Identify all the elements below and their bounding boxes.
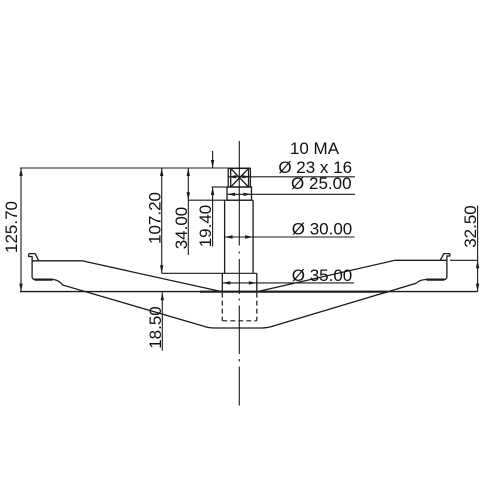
svg-text:19.40: 19.40 xyxy=(196,205,215,248)
label Ø 25.00 arrow left xyxy=(227,193,235,196)
svg-text:34.00: 34.00 xyxy=(172,207,191,250)
svg-text:10 MA: 10 MA xyxy=(290,139,340,158)
dim 34.00 arrow up xyxy=(187,168,190,176)
flange Ø35 right edge xyxy=(256,273,258,292)
label Ø 30.00 leader line xyxy=(225,236,355,238)
left hook body and foot xyxy=(32,261,214,328)
label Ø 23 x 16 arrow right xyxy=(242,175,250,178)
flange Ø35 left edge xyxy=(221,273,223,292)
label Ø 23 x 16 leader line xyxy=(228,176,355,178)
label Ø 35.00 arrow right xyxy=(249,281,257,284)
label Ø 25.00 arrow right xyxy=(244,193,252,196)
svg-text:18.50: 18.50 xyxy=(146,306,165,349)
right foot bottom thick edge xyxy=(427,279,445,281)
threaded section inner left line xyxy=(230,168,232,187)
right arm top face slant from flange xyxy=(257,260,395,292)
dim 125.70 arrow down xyxy=(19,284,22,292)
threaded section inner right line xyxy=(248,168,250,187)
hidden outline dashed right xyxy=(256,293,258,321)
dim 32.50 line xyxy=(477,206,479,292)
top reference line y=168 xyxy=(20,167,250,169)
flange top line with extension left to 107.20 dim xyxy=(162,272,257,274)
right hook tab xyxy=(440,254,450,261)
svg-text:Ø 25.00: Ø 25.00 xyxy=(291,174,352,193)
dim 125.70 arrow up xyxy=(19,168,22,176)
svg-text:125.70: 125.70 xyxy=(2,201,21,253)
threaded section diagonal 1 xyxy=(231,168,249,187)
Ø25 step block xyxy=(227,187,252,200)
left arm top face horizontal xyxy=(32,260,82,262)
dim 107.20 arrow down xyxy=(160,265,163,273)
dish flat bottom xyxy=(214,327,262,329)
dim 19.40 lower arrow up xyxy=(211,187,214,195)
svg-text:32.50: 32.50 xyxy=(461,205,480,248)
label Ø 23 x 16 arrow left xyxy=(228,175,236,178)
left arm top face slant to flange xyxy=(82,261,222,292)
bottom reference line y=291.6 full width xyxy=(20,291,478,293)
dim 107.20 line xyxy=(161,168,163,273)
label Ø 30.00 arrow left xyxy=(225,235,233,238)
threaded section box Ø23x16 outer rect xyxy=(228,168,250,187)
label Ø 35.00 leader line xyxy=(222,282,354,284)
centerline (vertical dash-dot axis) xyxy=(238,141,240,406)
dim 19.40 upper outside arrow line xyxy=(212,151,214,168)
dim 107.20 arrow up xyxy=(160,168,163,176)
label Ø 30.00 arrow right xyxy=(245,235,253,238)
label Ø 35.00 arrow left xyxy=(222,281,230,284)
right arm lower slant xyxy=(262,260,447,328)
svg-text:107.20: 107.20 xyxy=(145,192,164,244)
bottom reference line thick middle segment xyxy=(200,291,388,293)
dim 18.50 line xyxy=(161,292,163,350)
dim 125.70 line xyxy=(20,168,22,292)
dim 34.00 line xyxy=(187,168,189,255)
shaft Ø30 left edge xyxy=(224,200,226,273)
shaft Ø30 right edge xyxy=(252,200,254,273)
threaded section diagonal 2 xyxy=(231,168,249,187)
dim 34.00 arrow down xyxy=(187,192,190,200)
left hook tab xyxy=(29,254,39,261)
dim 19.40 upper arrow down xyxy=(211,160,214,168)
svg-text:Ø 35.00: Ø 35.00 xyxy=(292,266,353,285)
label Ø 25.00 leader line xyxy=(227,193,355,195)
dim 32.50 arrow down xyxy=(476,284,479,292)
svg-text:Ø 30.00: Ø 30.00 xyxy=(292,219,353,238)
hidden outline dashed bottom xyxy=(222,320,256,322)
hidden outline dashed left xyxy=(221,293,223,321)
left foot bottom thick edge xyxy=(35,279,53,281)
dim 32.50 arrow up xyxy=(476,260,479,268)
extension line right arm face to 32.50 dim xyxy=(450,259,478,261)
right arm top face horizontal xyxy=(395,259,447,261)
dim 19.40 lower line xyxy=(212,187,214,247)
step line at shaft top with extension to 34.00 dim xyxy=(188,199,253,201)
dim 18.50 arrow up xyxy=(161,292,164,300)
extension tick at Ø25 block top for 19.40 xyxy=(212,186,227,188)
